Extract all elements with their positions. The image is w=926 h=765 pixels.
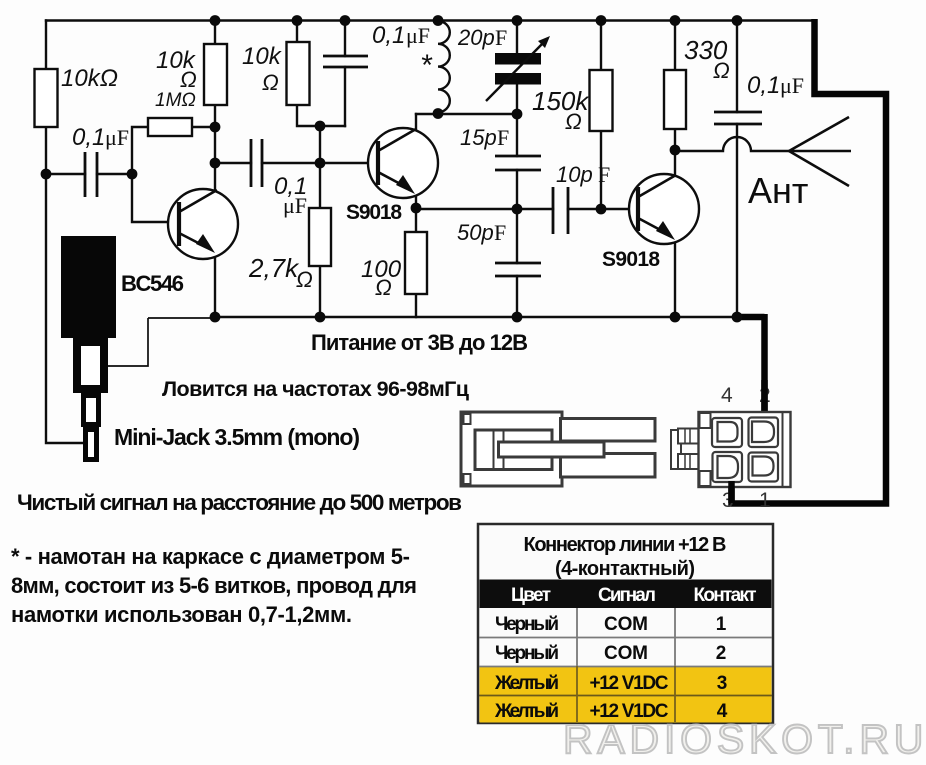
svg-text:намотки использован 0,7-1,2мм.: намотки использован 0,7-1,2мм.	[11, 602, 352, 627]
svg-text:Цвет: Цвет	[511, 585, 551, 606]
wire bottom rail left stub	[148, 317, 216, 319]
molex pin 3	[713, 452, 743, 482]
inductor L1	[438, 21, 450, 112]
svg-text:Ω: Ω	[296, 267, 313, 292]
svg-text:10kΩ: 10kΩ	[61, 65, 118, 92]
wire C1 branch	[46, 173, 132, 175]
svg-text:1: 1	[759, 489, 771, 512]
transistor Q3 S9018	[629, 174, 699, 244]
molex pin 2	[749, 418, 779, 448]
svg-text:4: 4	[721, 384, 733, 407]
junction C1 left	[41, 169, 52, 180]
svg-text:Черный: Черный	[495, 614, 559, 635]
svg-text:μF: μF	[105, 125, 129, 150]
svg-text:Желтый: Желтый	[494, 673, 559, 694]
wire 15pF branch	[516, 114, 518, 209]
junction top rail C2	[340, 15, 351, 26]
svg-text:8мм, состоит из 5-6 витков, пр: 8мм, состоит из 5-6 витков, провод для	[11, 573, 417, 598]
male plug drawing	[461, 412, 655, 486]
resistor R4 10k	[287, 42, 310, 105]
wire 50pF branch	[516, 209, 518, 317]
wire 150k branch	[600, 21, 602, 210]
svg-text:F: F	[495, 25, 507, 50]
junction top rail R8	[670, 15, 681, 26]
svg-text:Контакт: Контакт	[694, 585, 757, 606]
junction Q3 collector node	[670, 145, 681, 156]
wire 20pF branch	[516, 21, 518, 115]
svg-text:μF: μF	[283, 193, 307, 218]
wire Q3 emitter	[674, 242, 676, 317]
svg-text:Черный: Черный	[495, 643, 559, 664]
wire 1M link	[132, 127, 215, 174]
wire bottom rail	[215, 316, 738, 318]
capacitor C1 0.1u	[85, 152, 97, 197]
svg-text:Ω: Ω	[565, 109, 582, 134]
wire jack sleeve link	[108, 318, 148, 366]
svg-text:COM: COM	[604, 643, 648, 664]
svg-text:Чистый сигнал на расстояние до: Чистый сигнал на расстояние до 500 метро…	[17, 490, 462, 515]
wire antenna feed with hop	[675, 137, 789, 151]
svg-text:Ант: Ант	[748, 170, 808, 211]
junction top rail R7	[596, 15, 607, 26]
transistor Q2 S9018	[368, 128, 438, 198]
junction C8-C4 node	[512, 109, 523, 120]
table connector pinout	[478, 524, 773, 723]
svg-text:Питание от 3В до 12В: Питание от 3В до 12В	[311, 330, 528, 355]
wire thick stub over pin 3	[728, 481, 735, 503]
svg-text:15p: 15p	[460, 125, 497, 150]
svg-text:Ω: Ω	[375, 275, 392, 300]
svg-text:10p: 10p	[556, 162, 593, 187]
capacitor C7 0.1u	[714, 112, 762, 124]
junction top rail C8	[512, 15, 523, 26]
svg-text:50p: 50p	[457, 220, 494, 245]
wire Q2 collector	[415, 114, 417, 131]
resistor R2 10k	[204, 44, 227, 105]
capacitor C4 15p	[495, 156, 541, 170]
resistor R5 2.7k	[309, 208, 331, 266]
resistor R7 150k	[590, 70, 613, 131]
resistor R3 1M	[148, 118, 192, 136]
junction bottom rail R5	[315, 312, 326, 323]
capacitor C6 10p	[553, 187, 568, 234]
junction bottom rail C5	[512, 312, 523, 323]
svg-text:2,7k: 2,7k	[248, 253, 300, 283]
wire C2 branch	[344, 21, 346, 127]
svg-text:Mini-Jack 3.5mm (mono): Mini-Jack 3.5mm (mono)	[114, 424, 360, 450]
junction R4-C2 node	[315, 121, 326, 132]
svg-text:Сигнал: Сигнал	[598, 585, 656, 606]
junction top rail R2	[210, 15, 221, 26]
capacitor C5 50p	[495, 263, 541, 276]
molex pin 1	[749, 453, 779, 482]
svg-text:Коннектор линии +12 В: Коннектор линии +12 В	[524, 534, 727, 556]
svg-text:3: 3	[717, 673, 728, 694]
mini-jack plug	[61, 236, 116, 460]
wire left vertical to jack tip	[46, 21, 84, 444]
capacitor C2	[323, 56, 368, 67]
svg-text:μF: μF	[406, 23, 430, 48]
svg-text:20p: 20p	[457, 25, 495, 50]
svg-text:μF: μF	[780, 73, 804, 98]
wire Q1 base	[132, 174, 179, 222]
svg-text:Желтый: Желтый	[494, 701, 559, 722]
junction bottom rail Q3	[670, 312, 681, 323]
svg-text:Ω: Ω	[262, 70, 279, 95]
junction top rail C7	[732, 15, 743, 26]
junction C1 right / Q1 base node	[127, 169, 138, 180]
svg-text:RADIOSKOT.RU: RADIOSKOT.RU	[563, 716, 926, 762]
wire thick supply loop right	[732, 19, 887, 504]
svg-text:(4-контактный): (4-контактный)	[555, 558, 695, 580]
wire 330 / Q3 collector	[674, 21, 676, 177]
wire Q2 emitter to R6	[415, 196, 417, 317]
wire R5 2.7k branch	[319, 126, 321, 317]
svg-text:0,1: 0,1	[372, 22, 405, 49]
svg-text:0,1: 0,1	[72, 124, 105, 151]
wire C7 branch	[736, 21, 738, 318]
svg-text:COM: COM	[604, 614, 648, 635]
capacitor C3 0.1u	[251, 139, 262, 187]
svg-text:2: 2	[716, 643, 727, 664]
resistor R8 330	[664, 70, 686, 129]
svg-text:F: F	[497, 125, 509, 150]
junction L1 bottom	[433, 108, 444, 119]
junction bottom rail Q1	[210, 312, 221, 323]
svg-text:Ω: Ω	[713, 58, 730, 83]
junction bottom rail C7	[732, 312, 743, 323]
junction Q2 base node	[315, 158, 326, 169]
svg-text:1: 1	[716, 614, 727, 635]
svg-text:Ω: Ω	[180, 67, 197, 92]
wire thick bottom-rail to pin2	[737, 314, 765, 411]
wire C3 row to Q2 base	[215, 162, 378, 164]
wire R2 / Q1 collector	[214, 21, 216, 191]
svg-text:F: F	[598, 162, 610, 187]
wire R4 branch	[297, 21, 345, 127]
wire Q1 emitter	[214, 256, 216, 317]
junction R3 right	[210, 122, 221, 133]
svg-text:F: F	[494, 220, 506, 245]
wire thick stub over pin 2	[761, 380, 768, 411]
resistor R1 10k	[35, 69, 58, 127]
svg-text:10k: 10k	[242, 43, 283, 70]
svg-text:* - намотан на каркасе с диаме: * - намотан на каркасе с диаметром 5-	[11, 544, 410, 569]
latch piece	[671, 429, 699, 470]
svg-text:Ловится на частотах 96-98мГц: Ловится на частотах 96-98мГц	[162, 377, 470, 401]
wire emitter row y209	[416, 208, 638, 210]
wire L1 bottom node	[416, 113, 517, 115]
wire top rail	[46, 19, 814, 21]
transistor Q1 BC546	[168, 189, 238, 259]
junction R7-C6 node	[596, 204, 607, 215]
svg-text:0,1: 0,1	[747, 72, 780, 99]
svg-text:1МΩ: 1МΩ	[155, 90, 196, 111]
junction top rail L1	[433, 15, 444, 26]
antenna Ант	[789, 117, 851, 186]
svg-text:BC546: BC546	[121, 271, 184, 296]
junction top rail R4	[292, 15, 303, 26]
resistor R6 100	[405, 232, 427, 294]
capacitor C8 20p variable	[486, 36, 550, 101]
junction C4-C5 node	[512, 204, 523, 215]
svg-text:+12 V1DC: +12 V1DC	[590, 673, 669, 694]
junction Q2 emitter node	[411, 203, 422, 214]
svg-text:S9018: S9018	[602, 248, 660, 271]
molex connector body	[699, 412, 791, 487]
molex pin 4	[712, 418, 742, 447]
svg-text:S9018: S9018	[346, 201, 402, 224]
junction C3 left	[210, 158, 221, 169]
svg-text:*: *	[420, 49, 433, 82]
